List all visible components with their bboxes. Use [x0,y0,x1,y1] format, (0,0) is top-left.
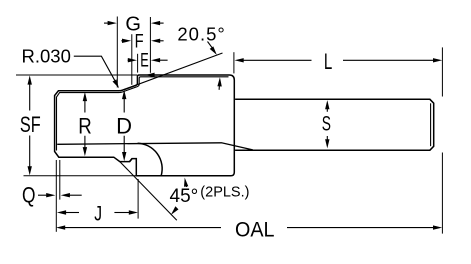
OAL dimension [64,227,435,229]
45 deg construction line [120,162,177,221]
svg-text:OAL: OAL [235,218,275,241]
F left extension line [131,34,133,85]
flute runout arc [138,143,163,175]
shank end chamfer inner line [430,103,432,146]
body outline top profile outer [55,75,235,176]
20.5 surface up arrow [218,83,221,90]
svg-text:D: D [116,114,132,139]
L dimension [242,59,434,61]
SF top extension line [16,74,137,76]
arrowhead on body top line [145,73,154,78]
SF bottom extension line [24,175,137,177]
J right extension line [137,179,139,219]
S dimension [326,106,328,142]
svg-text:R.030: R.030 [22,46,71,67]
D dimension [123,96,125,155]
svg-text:S: S [322,113,331,136]
Q right extension line [59,160,61,200]
E dimension [128,59,130,61]
right end extension line upper [441,47,443,96]
R.030 leader [74,56,115,80]
svg-text:(2PLS.): (2PLS.) [200,185,249,201]
svg-text:20.5°: 20.5° [177,23,225,44]
SF dimension [29,82,31,169]
svg-text:L: L [324,49,332,74]
svg-text:Q: Q [22,183,36,208]
E left extension line [137,54,139,73]
Q left extension line [55,160,57,232]
45 deg leader arrowhead [171,206,179,215]
GFE right extension line [149,17,151,73]
right end extension line lower [441,153,443,234]
flute top line across body to shank [57,143,253,150]
20.5 deg construction line [120,53,222,91]
shank outline [235,99,434,150]
20.5 leader arrow [208,42,213,48]
svg-text:SF: SF [20,112,41,137]
F dimension [121,40,124,42]
svg-text:45°: 45° [170,186,199,207]
L left extension line [233,52,235,73]
Q dimension [38,194,48,196]
bottom step detail [130,159,132,162]
R dimension [84,98,86,150]
G dimension [104,22,109,24]
svg-text:R: R [78,114,92,139]
45 up arrow [185,185,187,187]
svg-text:F: F [135,32,144,53]
inner double line along pilot top and body top [57,77,229,151]
J dimension [65,212,80,214]
svg-text:J: J [94,202,102,225]
G left extension line [116,17,118,88]
svg-text:E: E [140,51,149,72]
